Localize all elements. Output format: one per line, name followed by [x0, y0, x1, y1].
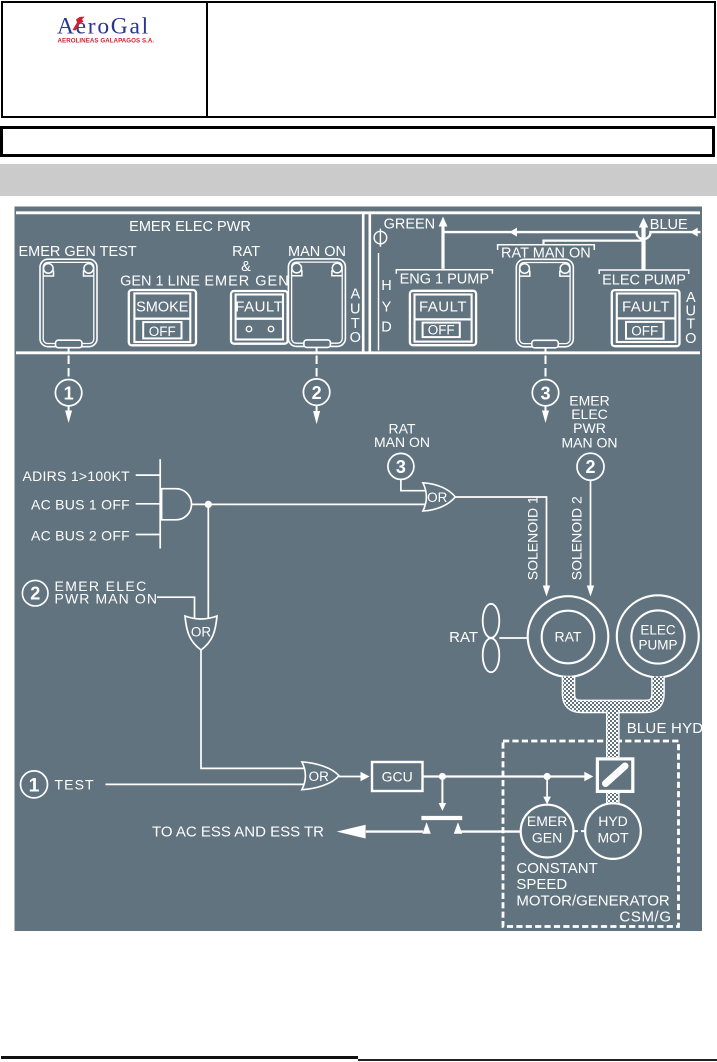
svg-text:BLUE: BLUE — [650, 217, 688, 233]
svg-text:MAN ON: MAN ON — [288, 244, 346, 260]
svg-text:EMER GEN TEST: EMER GEN TEST — [19, 244, 137, 260]
svg-text:RAT: RAT — [449, 629, 478, 646]
svg-text:SMOKE: SMOKE — [136, 299, 189, 315]
svg-text:ADIRS 1>100KT: ADIRS 1>100KT — [22, 468, 130, 484]
svg-text:1: 1 — [29, 775, 40, 797]
svg-text:OR: OR — [191, 624, 212, 639]
svg-text:CONSTANT: CONSTANT — [516, 860, 597, 877]
svg-text:U: U — [350, 301, 360, 317]
svg-text:CSM/G: CSM/G — [619, 909, 671, 926]
svg-text:RAT MAN ON: RAT MAN ON — [501, 245, 591, 261]
svg-text:AC BUS 2 OFF: AC BUS 2 OFF — [31, 528, 130, 544]
svg-text:PWR MAN ON: PWR MAN ON — [55, 591, 159, 607]
svg-text:OFF: OFF — [428, 323, 455, 338]
svg-text:SOLENOID 2: SOLENOID 2 — [568, 496, 584, 580]
svg-text:EMER: EMER — [527, 813, 567, 829]
svg-text:RAT: RAT — [232, 244, 260, 260]
svg-text:RAT: RAT — [555, 629, 582, 645]
svg-text:BLUE HYD: BLUE HYD — [627, 720, 704, 737]
svg-text:OFF: OFF — [149, 324, 176, 339]
svg-text:FAULT: FAULT — [622, 299, 670, 316]
svg-text:MAN ON: MAN ON — [562, 435, 618, 451]
svg-text:O: O — [685, 331, 696, 347]
svg-text:MOTOR/GENERATOR: MOTOR/GENERATOR — [516, 892, 670, 909]
svg-text:2: 2 — [312, 383, 322, 403]
svg-text:HYD: HYD — [598, 813, 628, 829]
svg-text:H: H — [381, 278, 391, 294]
svg-text:A: A — [350, 287, 360, 303]
svg-text:O: O — [350, 330, 361, 346]
svg-text:OR: OR — [309, 769, 330, 784]
svg-text:TO AC ESS AND ESS TR: TO AC ESS AND ESS TR — [152, 824, 324, 841]
svg-text:ELEC PUMP: ELEC PUMP — [602, 272, 686, 288]
svg-text:EMER GEN: EMER GEN — [204, 273, 289, 289]
svg-text:FAULT: FAULT — [419, 299, 467, 316]
svg-text:1: 1 — [64, 384, 74, 404]
svg-text:GEN: GEN — [532, 829, 562, 845]
svg-text:TEST: TEST — [55, 776, 95, 792]
svg-text:2: 2 — [30, 584, 40, 604]
svg-text:OFF: OFF — [631, 324, 658, 339]
svg-text:AC BUS 1 OFF: AC BUS 1 OFF — [31, 497, 130, 513]
svg-text:MOT: MOT — [597, 829, 629, 845]
svg-text:FAULT: FAULT — [235, 298, 283, 315]
svg-text:ELEC: ELEC — [640, 622, 676, 637]
svg-text:GREEN: GREEN — [384, 216, 436, 232]
svg-text:D: D — [381, 320, 391, 336]
svg-text:PUMP: PUMP — [638, 637, 677, 652]
svg-text:GEN 1 LINE: GEN 1 LINE — [120, 273, 200, 289]
svg-text:SPEED: SPEED — [516, 876, 567, 893]
svg-text:ENG 1 PUMP: ENG 1 PUMP — [400, 272, 489, 288]
svg-text:3: 3 — [396, 457, 406, 477]
svg-text:OR: OR — [427, 490, 448, 505]
svg-text:Y: Y — [382, 300, 392, 316]
svg-text:SOLENOID 1: SOLENOID 1 — [524, 496, 540, 580]
svg-text:2: 2 — [585, 457, 595, 477]
svg-text:3: 3 — [540, 384, 550, 404]
svg-text:MAN ON: MAN ON — [374, 434, 430, 450]
svg-text:GCU: GCU — [382, 769, 413, 785]
svg-text:EMER ELEC PWR: EMER ELEC PWR — [129, 219, 251, 235]
